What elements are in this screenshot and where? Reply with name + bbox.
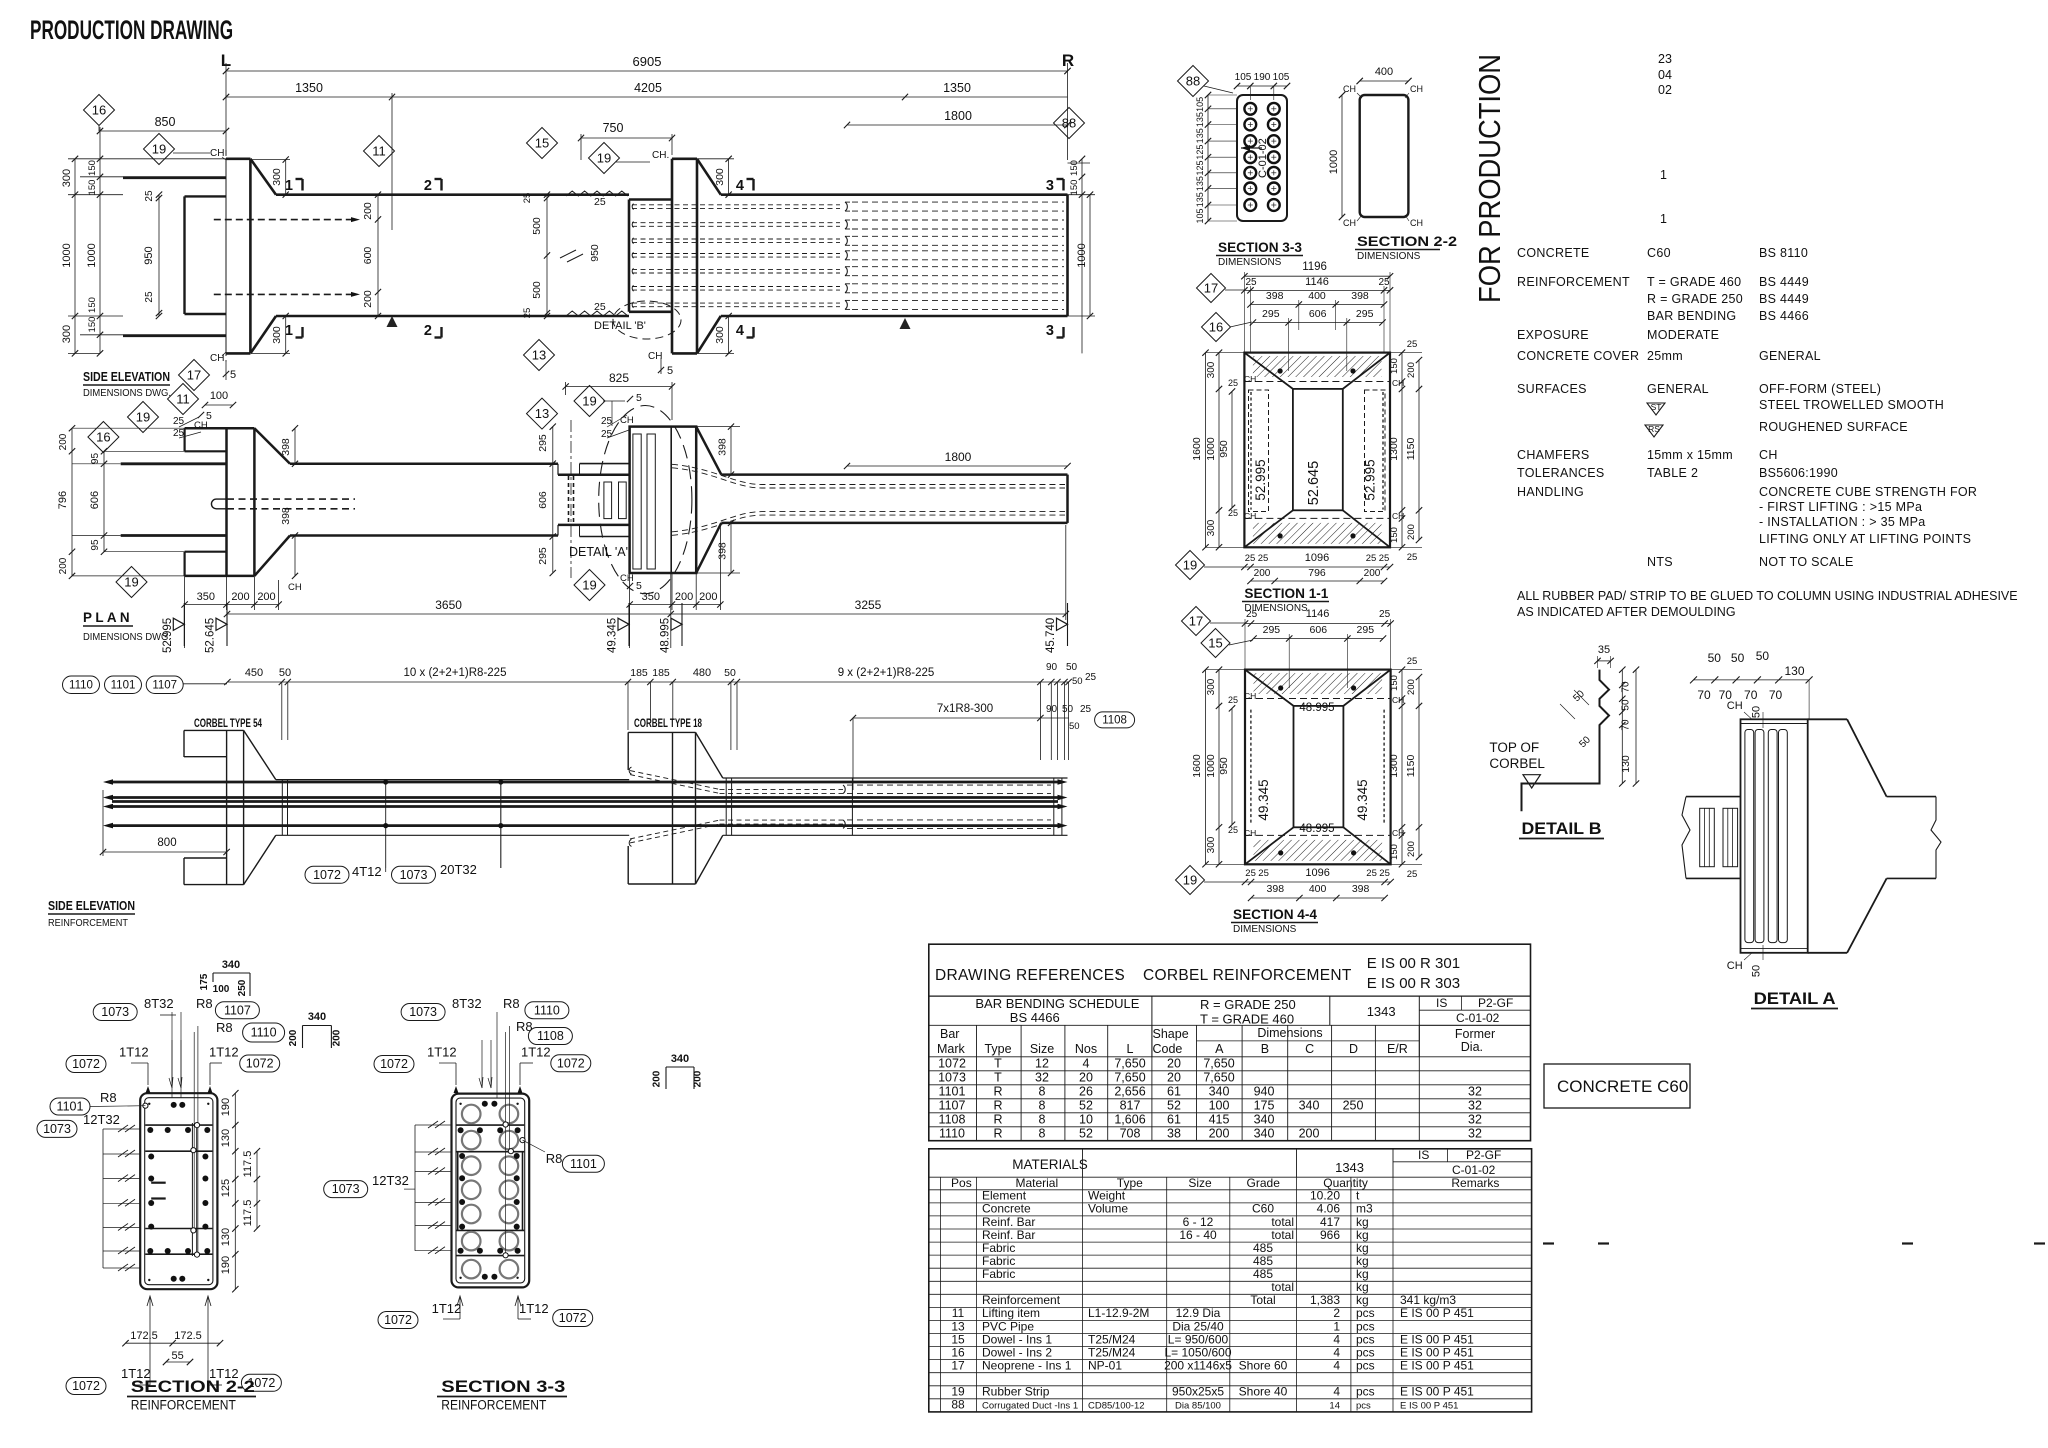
svg-text:200: 200 — [257, 591, 275, 603]
svg-text:8: 8 — [1039, 1112, 1046, 1126]
svg-text:4: 4 — [736, 178, 744, 194]
svg-text:796: 796 — [57, 491, 69, 509]
svg-text:2: 2 — [424, 323, 432, 339]
svg-text:200: 200 — [693, 1070, 704, 1087]
svg-text:50: 50 — [1069, 721, 1080, 732]
svg-text:1: 1 — [1333, 1319, 1340, 1333]
svg-text:TOLERANCES: TOLERANCES — [1517, 466, 1605, 480]
svg-text:02: 02 — [1658, 83, 1672, 97]
svg-text:- FIRST LIFTING : >15 MPa: - FIRST LIFTING : >15 MPa — [1759, 500, 1922, 514]
svg-text:130: 130 — [220, 1129, 232, 1147]
svg-text:300: 300 — [714, 168, 726, 186]
svg-text:5: 5 — [206, 410, 212, 422]
svg-text:49.345: 49.345 — [1355, 779, 1370, 820]
svg-text:150: 150 — [87, 297, 98, 313]
svg-text:17: 17 — [187, 368, 201, 383]
svg-text:950: 950 — [1218, 440, 1230, 458]
svg-text:52.645: 52.645 — [205, 618, 217, 653]
svg-text:1150: 1150 — [1405, 755, 1417, 778]
svg-text:172.5: 172.5 — [130, 1330, 158, 1342]
svg-text:400: 400 — [1308, 290, 1326, 302]
svg-text:70: 70 — [1621, 719, 1632, 731]
svg-text:BAR BENDING: BAR BENDING — [1647, 309, 1736, 323]
svg-text:STEEL TROWELLED SMOOTH: STEEL TROWELLED SMOOTH — [1759, 398, 1944, 412]
svg-text:pcs: pcs — [1356, 1332, 1375, 1346]
svg-text:DIMENSIONS: DIMENSIONS — [1233, 924, 1297, 935]
svg-text:R8: R8 — [100, 1090, 117, 1105]
svg-text:8: 8 — [1039, 1098, 1046, 1112]
svg-text:REINFORCEMENT: REINFORCEMENT — [1517, 275, 1630, 289]
svg-text:200: 200 — [362, 290, 374, 308]
svg-text:Dia 25/40: Dia 25/40 — [1172, 1319, 1224, 1333]
svg-text:R8: R8 — [196, 996, 213, 1011]
svg-text:8T32: 8T32 — [452, 996, 482, 1011]
svg-text:Quantity: Quantity — [1323, 1176, 1368, 1190]
svg-text:T = GRADE 460: T = GRADE 460 — [1200, 1012, 1294, 1027]
svg-text:Bar: Bar — [940, 1027, 959, 1041]
svg-text:200: 200 — [652, 1070, 663, 1087]
svg-text:398: 398 — [1352, 883, 1370, 895]
svg-text:25: 25 — [1245, 553, 1256, 564]
svg-text:1072: 1072 — [313, 868, 341, 882]
svg-text:200: 200 — [231, 591, 249, 603]
svg-text:1073: 1073 — [409, 1005, 437, 1019]
svg-text:1000: 1000 — [1205, 754, 1217, 778]
svg-text:1072: 1072 — [557, 1056, 585, 1070]
svg-text:Former: Former — [1455, 1027, 1495, 1041]
svg-text:1600: 1600 — [1191, 754, 1203, 778]
svg-text:1108: 1108 — [1102, 715, 1127, 727]
svg-text:19: 19 — [951, 1385, 965, 1399]
svg-text:Reinforcement: Reinforcement — [982, 1293, 1061, 1307]
svg-text:52.995: 52.995 — [1253, 459, 1268, 500]
svg-text:25: 25 — [601, 429, 613, 440]
svg-text:C-01-02: C-01-02 — [1257, 138, 1269, 178]
svg-text:1: 1 — [1660, 212, 1667, 226]
svg-text:CORBEL: CORBEL — [1489, 756, 1545, 771]
svg-text:200: 200 — [1406, 679, 1417, 695]
svg-text:10.20: 10.20 — [1310, 1189, 1340, 1203]
svg-text:130: 130 — [1620, 755, 1632, 773]
svg-text:20T32: 20T32 — [440, 862, 477, 877]
svg-text:kg: kg — [1356, 1241, 1369, 1255]
svg-text:49.345: 49.345 — [1256, 779, 1271, 820]
svg-text:CH: CH — [1410, 84, 1423, 94]
svg-text:CH: CH — [620, 573, 634, 584]
svg-text:25: 25 — [1407, 339, 1418, 350]
svg-text:Pos: Pos — [951, 1176, 972, 1190]
svg-text:1110: 1110 — [939, 1126, 965, 1140]
svg-text:50: 50 — [724, 667, 736, 679]
svg-text:48.995: 48.995 — [1299, 823, 1334, 835]
svg-text:200: 200 — [58, 433, 69, 450]
svg-text:T = GRADE 460: T = GRADE 460 — [1647, 275, 1741, 289]
svg-text:CH: CH — [1244, 374, 1256, 384]
svg-text:150: 150 — [87, 160, 98, 176]
svg-text:105: 105 — [1195, 208, 1205, 223]
svg-text:CORBEL REINFORCEMENT: CORBEL REINFORCEMENT — [1143, 967, 1352, 984]
svg-text:E IS 00 R 303: E IS 00 R 303 — [1367, 975, 1460, 992]
svg-text:50: 50 — [1708, 651, 1722, 665]
svg-text:340: 340 — [1209, 1084, 1230, 1098]
svg-text:DETAIL 'B': DETAIL 'B' — [594, 320, 646, 332]
svg-text:CH: CH — [1727, 960, 1743, 972]
svg-text:1072: 1072 — [938, 1056, 966, 1070]
svg-text:AS INDICATED AFTER DEMOULDING: AS INDICATED AFTER DEMOULDING — [1517, 605, 1736, 619]
svg-text:L= 1050/600: L= 1050/600 — [1164, 1345, 1231, 1359]
svg-text:DIMENSIONS: DIMENSIONS — [1357, 251, 1421, 262]
svg-text:300: 300 — [271, 168, 283, 186]
svg-text:REINFORCEMENT: REINFORCEMENT — [441, 1398, 546, 1413]
svg-text:105: 105 — [1273, 72, 1290, 83]
svg-text:E IS 00 P 451: E IS 00 P 451 — [1400, 1345, 1474, 1359]
svg-text:25: 25 — [1245, 868, 1256, 879]
svg-text:2: 2 — [424, 178, 432, 194]
svg-text:50: 50 — [1751, 965, 1763, 977]
svg-text:25: 25 — [1258, 868, 1269, 879]
svg-text:DIMENSIONS DWG.: DIMENSIONS DWG. — [83, 631, 171, 643]
svg-text:04: 04 — [1658, 68, 1672, 82]
svg-text:ST: ST — [1651, 402, 1662, 412]
svg-text:CONCRETE C60: CONCRETE C60 — [1557, 1077, 1688, 1096]
svg-text:340: 340 — [308, 1011, 326, 1023]
svg-text:Dimensions: Dimensions — [1257, 1026, 1322, 1040]
svg-text:SIDE ELEVATION: SIDE ELEVATION — [83, 369, 170, 384]
svg-text:1110: 1110 — [251, 1026, 277, 1040]
svg-text:1350: 1350 — [295, 81, 323, 95]
svg-text:kg: kg — [1356, 1293, 1369, 1307]
svg-text:TOP OF: TOP OF — [1489, 740, 1539, 755]
svg-text:300: 300 — [714, 326, 726, 344]
svg-text:CH: CH — [1343, 218, 1356, 228]
svg-text:Shore 60: Shore 60 — [1239, 1359, 1288, 1373]
svg-text:REINFORCEMENT: REINFORCEMENT — [131, 1398, 236, 1413]
svg-text:total: total — [1271, 1280, 1294, 1294]
svg-text:CD85/100-12: CD85/100-12 — [1088, 1401, 1145, 1412]
svg-text:Dowel - Ins 1: Dowel - Ins 1 — [982, 1332, 1052, 1346]
svg-text:117.5: 117.5 — [242, 1200, 254, 1227]
svg-text:1107: 1107 — [224, 1003, 251, 1017]
svg-text:50: 50 — [1751, 706, 1763, 718]
svg-text:25: 25 — [1407, 656, 1418, 667]
svg-text::: : — [1116, 967, 1120, 984]
svg-text:OFF-FORM (STEEL): OFF-FORM (STEEL) — [1759, 382, 1881, 396]
svg-text:1T12: 1T12 — [427, 1045, 457, 1060]
svg-text:PVC Pipe: PVC Pipe — [982, 1319, 1034, 1333]
svg-text:950: 950 — [143, 246, 155, 264]
svg-text:15: 15 — [951, 1332, 965, 1346]
svg-text:6 - 12: 6 - 12 — [1183, 1215, 1214, 1229]
svg-text:340: 340 — [1254, 1112, 1275, 1126]
svg-text:1146: 1146 — [1306, 608, 1330, 620]
svg-text:7,650: 7,650 — [1114, 1056, 1145, 1070]
svg-text:GENERAL: GENERAL — [1647, 382, 1709, 396]
svg-text:25: 25 — [1228, 378, 1238, 388]
svg-text:1: 1 — [285, 323, 293, 339]
svg-text:Element: Element — [982, 1189, 1027, 1203]
svg-text:1073: 1073 — [938, 1070, 966, 1084]
svg-text:PLAN: PLAN — [83, 609, 133, 625]
svg-text:340: 340 — [671, 1053, 689, 1065]
svg-text:20: 20 — [1167, 1070, 1181, 1084]
svg-text:LIFTING ONLY AT LIFTING POINTS: LIFTING ONLY AT LIFTING POINTS — [1759, 532, 1971, 546]
svg-text:295: 295 — [1262, 308, 1280, 320]
svg-text:25: 25 — [1258, 553, 1269, 564]
svg-text:Code: Code — [1153, 1042, 1183, 1056]
svg-text:175: 175 — [199, 973, 210, 990]
svg-text:32: 32 — [1468, 1112, 1482, 1126]
svg-text:E IS 00 P 451: E IS 00 P 451 — [1400, 1359, 1474, 1373]
svg-text:398: 398 — [1267, 883, 1285, 895]
svg-text:DRAWING REFERENCES: DRAWING REFERENCES — [935, 967, 1125, 984]
svg-text:C60: C60 — [1252, 1202, 1274, 1216]
svg-text:52: 52 — [1079, 1126, 1093, 1140]
svg-text:Corrugated Duct -Ins 1: Corrugated Duct -Ins 1 — [982, 1401, 1078, 1412]
svg-text:10 x (2+2+1)R8-225: 10 x (2+2+1)R8-225 — [404, 667, 507, 679]
svg-text:32: 32 — [1468, 1126, 1482, 1140]
svg-text:12: 12 — [1035, 1056, 1049, 1070]
svg-text:P2-GF: P2-GF — [1478, 996, 1513, 1010]
svg-text:1101: 1101 — [57, 1100, 84, 1114]
svg-text:25: 25 — [1379, 609, 1391, 620]
svg-text:DETAIL A: DETAIL A — [1754, 989, 1836, 1008]
svg-text:11: 11 — [952, 1306, 965, 1320]
svg-text:1000: 1000 — [86, 243, 98, 267]
svg-text:398: 398 — [1266, 290, 1284, 302]
svg-text:CH: CH — [620, 415, 634, 426]
svg-text:Reinf. Bar: Reinf. Bar — [982, 1215, 1035, 1229]
svg-text:55: 55 — [171, 1350, 183, 1362]
svg-text:190: 190 — [1254, 72, 1271, 83]
svg-text:250: 250 — [237, 979, 248, 996]
svg-text:300: 300 — [61, 169, 73, 187]
svg-text:12T32: 12T32 — [83, 1112, 120, 1127]
svg-text:CORBEL TYPE 54: CORBEL TYPE 54 — [194, 718, 262, 730]
svg-text:8: 8 — [1039, 1126, 1046, 1140]
svg-text:90: 90 — [1046, 704, 1058, 715]
svg-text:130: 130 — [220, 1228, 232, 1246]
svg-text:8: 8 — [1039, 1084, 1046, 1098]
svg-text:BS 8110: BS 8110 — [1759, 246, 1808, 260]
svg-text:3: 3 — [1046, 323, 1054, 339]
svg-text:FOR PRODUCTION: FOR PRODUCTION — [1472, 54, 1507, 303]
svg-text:R = GRADE 250: R = GRADE 250 — [1200, 997, 1296, 1012]
svg-text:MODERATE: MODERATE — [1647, 328, 1719, 342]
svg-text:SECTION 1-1: SECTION 1-1 — [1244, 586, 1328, 601]
svg-text:kg: kg — [1356, 1267, 1369, 1281]
svg-text:1T12: 1T12 — [209, 1045, 239, 1060]
svg-text:9 x (2+2+1)R8-225: 9 x (2+2+1)R8-225 — [838, 667, 935, 679]
svg-text:CH: CH — [210, 353, 224, 364]
svg-text:1073: 1073 — [43, 1122, 71, 1136]
svg-text:16: 16 — [92, 103, 106, 118]
svg-text:500: 500 — [531, 217, 543, 235]
svg-text:14: 14 — [1329, 1401, 1340, 1412]
svg-text:25: 25 — [1228, 695, 1238, 705]
svg-text:398: 398 — [280, 507, 292, 525]
svg-text:CH: CH — [1759, 448, 1778, 462]
svg-text:48.995: 48.995 — [660, 618, 672, 653]
svg-text:1107: 1107 — [152, 680, 177, 692]
svg-text:CH: CH — [1244, 511, 1256, 521]
svg-text:606: 606 — [1310, 624, 1328, 636]
svg-text:1350: 1350 — [943, 81, 971, 95]
svg-text:172.5: 172.5 — [174, 1330, 202, 1342]
svg-text:125: 125 — [220, 1179, 232, 1197]
svg-text:50: 50 — [1066, 662, 1078, 673]
svg-text:kg: kg — [1356, 1228, 1369, 1242]
svg-text:750: 750 — [603, 121, 624, 135]
svg-text:340: 340 — [1299, 1098, 1320, 1112]
svg-text:SECTION 3-3: SECTION 3-3 — [441, 1377, 565, 1396]
svg-text:Dia.: Dia. — [1461, 1040, 1483, 1054]
svg-text:CH: CH — [1727, 700, 1743, 712]
svg-text:Dia 85/100: Dia 85/100 — [1175, 1401, 1221, 1412]
svg-text:kg: kg — [1356, 1280, 1369, 1294]
svg-text:Nos: Nos — [1075, 1042, 1097, 1056]
svg-text:45.740: 45.740 — [1045, 618, 1057, 653]
svg-text:135: 135 — [1195, 176, 1205, 191]
svg-text:100: 100 — [213, 984, 230, 995]
svg-text:25: 25 — [1228, 508, 1238, 518]
svg-text:R: R — [993, 1112, 1002, 1126]
svg-text:200: 200 — [58, 557, 69, 574]
svg-text:4: 4 — [1333, 1359, 1340, 1373]
svg-text:E IS 00 P 451: E IS 00 P 451 — [1400, 1332, 1474, 1346]
svg-text:Concrete: Concrete — [982, 1202, 1031, 1216]
svg-text:485: 485 — [1253, 1267, 1273, 1281]
svg-text:BAR BENDING SCHEDULE: BAR BENDING SCHEDULE — [975, 996, 1139, 1011]
svg-text:3: 3 — [1046, 178, 1054, 194]
svg-text:1,383: 1,383 — [1310, 1293, 1340, 1307]
svg-text:19: 19 — [1183, 873, 1197, 888]
svg-text:4: 4 — [736, 323, 744, 339]
svg-text:E IS 00 P 451: E IS 00 P 451 — [1400, 1306, 1474, 1320]
svg-text:400: 400 — [1309, 883, 1327, 895]
svg-text:3650: 3650 — [435, 598, 462, 612]
svg-text:4205: 4205 — [634, 81, 662, 95]
svg-text:L: L — [1127, 1042, 1134, 1056]
svg-text:50: 50 — [279, 667, 291, 679]
svg-text:135: 135 — [1195, 192, 1205, 207]
svg-text:398: 398 — [717, 438, 729, 456]
svg-text:NTS: NTS — [1647, 555, 1673, 569]
svg-text:417: 417 — [1320, 1215, 1340, 1229]
svg-text:25: 25 — [1245, 277, 1257, 288]
svg-text:105: 105 — [1235, 72, 1252, 83]
svg-text:117.5: 117.5 — [242, 1151, 254, 1178]
svg-text:5: 5 — [636, 392, 642, 404]
svg-text:Grade: Grade — [1247, 1176, 1281, 1190]
svg-text:200: 200 — [675, 591, 693, 603]
svg-text:200: 200 — [288, 1029, 299, 1046]
svg-text:300: 300 — [1206, 678, 1217, 695]
svg-text:L= 950/600: L= 950/600 — [1168, 1332, 1229, 1346]
svg-text:26: 26 — [1079, 1084, 1093, 1098]
svg-text:- INSTALLATION : > 35 MPa: - INSTALLATION : > 35 MPa — [1759, 515, 1925, 529]
svg-text:1000: 1000 — [1205, 437, 1217, 461]
svg-text:25: 25 — [1366, 868, 1377, 879]
svg-text:Type: Type — [984, 1042, 1011, 1056]
svg-text:HANDLING: HANDLING — [1517, 485, 1584, 499]
svg-text:1: 1 — [1660, 168, 1667, 182]
svg-text:7,650: 7,650 — [1203, 1056, 1234, 1070]
svg-text:606: 606 — [537, 491, 549, 509]
svg-text:13: 13 — [535, 406, 549, 421]
svg-text:150: 150 — [1389, 844, 1400, 860]
svg-text:DETAIL 'A': DETAIL 'A' — [569, 545, 628, 559]
svg-text:50: 50 — [1731, 651, 1745, 665]
svg-text:E IS 00 P 451: E IS 00 P 451 — [1400, 1385, 1474, 1399]
svg-text:B: B — [1261, 1042, 1269, 1056]
svg-text:50: 50 — [1062, 704, 1074, 715]
svg-text:E IS 00 R 301: E IS 00 R 301 — [1367, 955, 1460, 972]
svg-text:SECTION 4-4: SECTION 4-4 — [1233, 907, 1317, 922]
svg-text:1,606: 1,606 — [1114, 1112, 1145, 1126]
svg-text:DIMENSIONS DWG.: DIMENSIONS DWG. — [83, 387, 171, 399]
svg-text:1T12: 1T12 — [119, 1045, 149, 1060]
svg-text:Shape: Shape — [1153, 1027, 1189, 1041]
svg-text:70: 70 — [1744, 688, 1758, 702]
svg-text:CH: CH — [1244, 691, 1256, 701]
svg-text:pcs: pcs — [1356, 1359, 1375, 1373]
svg-text:1343: 1343 — [1367, 1004, 1396, 1019]
svg-text:pcs: pcs — [1356, 1345, 1375, 1359]
svg-text:16: 16 — [96, 430, 110, 445]
svg-text:Size: Size — [1188, 1176, 1212, 1190]
svg-text:1072: 1072 — [72, 1057, 100, 1071]
svg-text:Volume: Volume — [1088, 1202, 1128, 1216]
svg-text:398: 398 — [280, 438, 292, 456]
svg-text:15: 15 — [1208, 636, 1222, 651]
svg-text:32: 32 — [1468, 1084, 1482, 1098]
svg-text:1101: 1101 — [111, 680, 136, 692]
svg-text:966: 966 — [1320, 1228, 1340, 1242]
svg-text:C: C — [1305, 1042, 1314, 1056]
svg-text:Shore 40: Shore 40 — [1239, 1385, 1288, 1399]
svg-text:1T12: 1T12 — [521, 1045, 551, 1060]
svg-text:398: 398 — [717, 542, 729, 560]
svg-text:DIMENSIONS: DIMENSIONS — [1218, 257, 1282, 268]
svg-text:200 x1146x5: 200 x1146x5 — [1164, 1359, 1232, 1373]
svg-text:25: 25 — [594, 196, 606, 208]
svg-text:1108: 1108 — [537, 1029, 564, 1043]
svg-text:A: A — [1215, 1042, 1224, 1056]
svg-text:5: 5 — [230, 369, 236, 381]
svg-text:C-01-02: C-01-02 — [1456, 1011, 1500, 1025]
svg-text:16: 16 — [951, 1345, 965, 1359]
svg-text:1072: 1072 — [559, 1311, 587, 1325]
svg-text:1: 1 — [285, 178, 293, 194]
svg-text:1800: 1800 — [944, 109, 972, 123]
svg-text:1196: 1196 — [1302, 261, 1327, 273]
svg-text:200: 200 — [1364, 568, 1381, 579]
svg-text:C60: C60 — [1647, 246, 1671, 260]
svg-text:CH.: CH. — [652, 150, 669, 161]
svg-text:300: 300 — [271, 326, 283, 344]
svg-text:25: 25 — [1407, 552, 1418, 563]
svg-text:m3: m3 — [1356, 1202, 1373, 1216]
svg-text:70: 70 — [1769, 688, 1783, 702]
svg-text:Material: Material — [1015, 1176, 1058, 1190]
svg-text:17: 17 — [1204, 281, 1218, 296]
svg-text:Size: Size — [1030, 1042, 1054, 1056]
svg-text:6905: 6905 — [633, 54, 662, 69]
svg-text:CHAMFERS: CHAMFERS — [1517, 448, 1590, 462]
svg-text:190: 190 — [220, 1256, 232, 1274]
svg-text:CH: CH — [1410, 218, 1423, 228]
svg-text:E IS 00 P 451: E IS 00 P 451 — [1400, 1401, 1458, 1412]
